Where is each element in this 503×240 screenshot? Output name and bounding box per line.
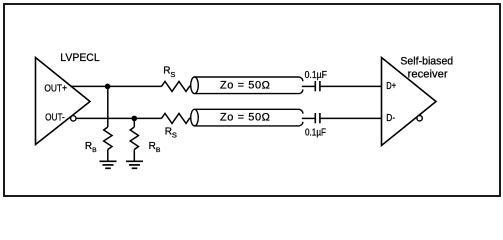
svg-text:LVPECL: LVPECL: [60, 52, 99, 64]
transmission line T1 body: [195, 77, 303, 94]
ground GND1: [100, 161, 117, 168]
inversion bubble on OUT-: [71, 116, 76, 121]
svg-text:Self-biased: Self-biased: [400, 55, 453, 67]
wire RB1 to ground: [107, 150, 109, 162]
driver U1 (LVPECL): [36, 58, 91, 145]
wire C2 to receiver D-: [321, 117, 382, 119]
svg-text:0.1µF: 0.1µF: [305, 70, 327, 81]
wire J1 down to RB1: [107, 86, 109, 127]
svg-text:D+: D+: [386, 81, 396, 92]
transmission line T2 left end cap: [191, 109, 199, 126]
svg-text:receiver: receiver: [408, 69, 448, 81]
svg-text:OUT+: OUT+: [44, 84, 67, 95]
wire RB2 to ground: [133, 150, 135, 162]
wire T1 to C1: [302, 85, 315, 87]
transmission line T2 body: [195, 109, 303, 126]
resistor RB2: [130, 127, 138, 150]
ground GND2: [126, 161, 143, 168]
receiver U2 (self-biased): [382, 58, 437, 146]
svg-text:0.1µF: 0.1µF: [305, 127, 326, 138]
wire OUT- to RS2: [76, 117, 161, 119]
border frame: [4, 4, 500, 196]
node junction J1: [105, 84, 111, 90]
node junction J2: [132, 116, 138, 122]
bubble on receiver lower edge: [417, 116, 422, 121]
transmission line T1 left end cap: [191, 77, 199, 94]
svg-text:D-: D-: [386, 113, 395, 124]
capacitor C1: [315, 81, 320, 91]
wire C1 to receiver D+: [321, 85, 382, 87]
resistor RS1: [162, 81, 193, 91]
svg-text:Zo = 50Ω: Zo = 50Ω: [220, 79, 270, 91]
capacitor C2: [315, 113, 320, 123]
resistor RS2: [162, 113, 193, 123]
wire OUT+ to RS1: [71, 85, 162, 87]
wire T2 to C2: [302, 117, 315, 119]
svg-text:OUT-: OUT-: [45, 112, 65, 123]
svg-text:Zo = 50Ω: Zo = 50Ω: [220, 112, 270, 124]
wire J2 down to RB2: [133, 118, 135, 127]
resistor RB1: [104, 127, 112, 150]
